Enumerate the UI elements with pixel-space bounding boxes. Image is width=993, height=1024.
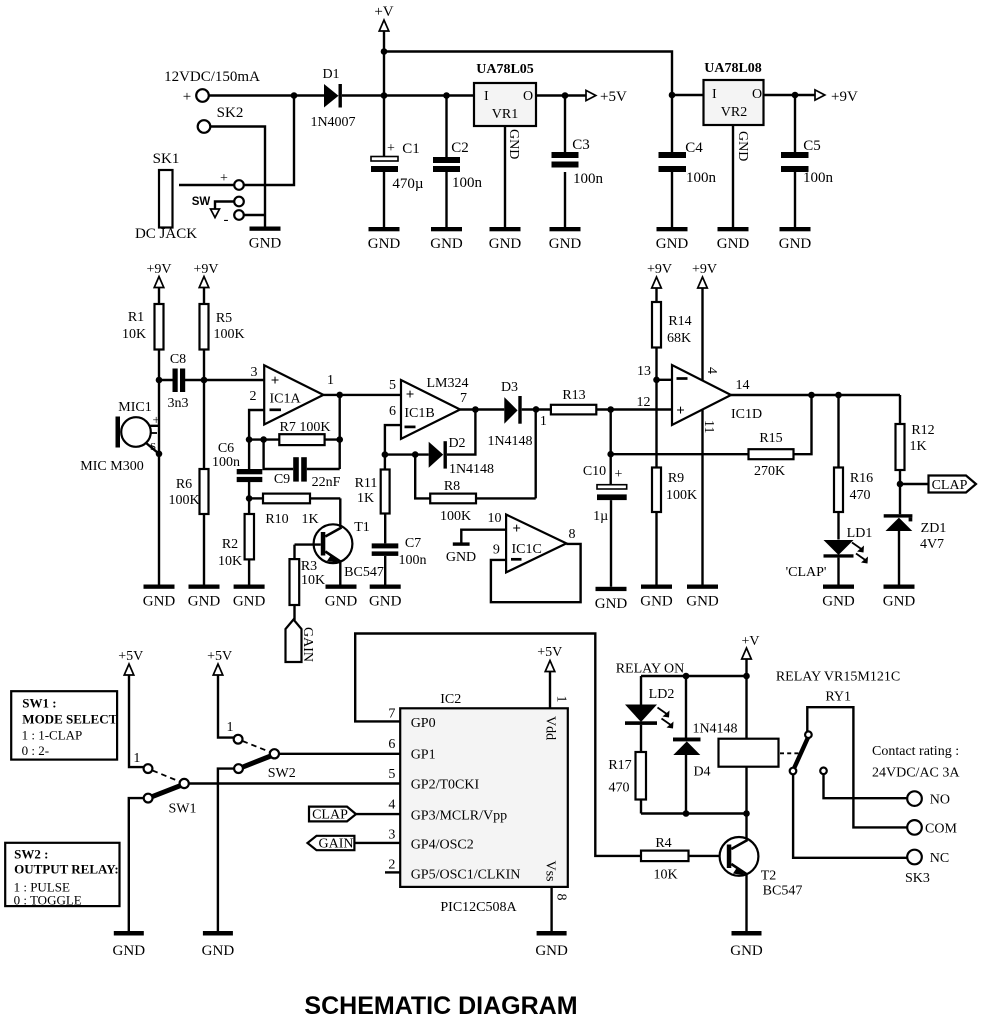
svg-text:GP5/OSC1/CLKIN: GP5/OSC1/CLKIN [411, 868, 521, 883]
svg-text:470µ: 470µ [392, 176, 424, 192]
resistor R1 10K [122, 288, 164, 381]
wire IC1A pin2 loop [249, 410, 264, 440]
terminal NC [907, 850, 949, 866]
wire pin4 supply [701, 288, 703, 380]
relay switch contacts [790, 707, 908, 858]
svg-text:LD1: LD1 [847, 526, 873, 541]
node +9V rail R14 [647, 262, 672, 288]
ground ZD1 [883, 585, 916, 610]
svg-text:C8: C8 [170, 352, 186, 367]
svg-text:GP3/MCLR/Vpp: GP3/MCLR/Vpp [411, 809, 507, 824]
tag CLAP input GP3 [309, 807, 400, 823]
svg-text:R9: R9 [668, 471, 684, 486]
svg-text:1K: 1K [909, 439, 926, 454]
wire SK2 to ground rail [211, 127, 266, 227]
switch SW2 [227, 720, 296, 781]
svg-text:SW1 :: SW1 : [22, 696, 56, 711]
svg-text:SW: SW [192, 196, 211, 208]
svg-text:T2: T2 [761, 869, 777, 884]
svg-text:+: + [271, 373, 280, 389]
svg-text:1K: 1K [357, 491, 374, 506]
svg-text:T1: T1 [354, 520, 370, 535]
svg-text:4: 4 [704, 367, 719, 374]
ground SW2 [202, 931, 235, 959]
svg-text:470: 470 [609, 781, 630, 796]
svg-text:SW2 :: SW2 : [14, 847, 48, 862]
svg-text:Contact rating :: Contact rating : [872, 744, 959, 759]
ground pin11 [686, 585, 719, 610]
svg-text:R17: R17 [608, 758, 631, 773]
svg-text:GND: GND [446, 550, 476, 565]
svg-text:R4: R4 [655, 836, 671, 851]
svg-text:5: 5 [389, 378, 396, 393]
wire IC1C feedback loop [491, 544, 581, 602]
svg-text:GAIN: GAIN [319, 837, 354, 852]
resistor R17 470 [608, 752, 646, 814]
ground R9 [640, 585, 673, 610]
resistor R13 [551, 388, 672, 414]
resistor R3 10K [290, 545, 326, 620]
svg-text:ZD1: ZD1 [921, 521, 947, 536]
svg-text:3: 3 [251, 365, 258, 380]
svg-text:10K: 10K [653, 868, 677, 883]
svg-text:0 : 2-: 0 : 2- [22, 743, 49, 758]
svg-text:I: I [484, 89, 489, 104]
svg-text:SCHEMATIC DIAGRAM: SCHEMATIC DIAGRAM [304, 992, 577, 1020]
ground C7 [369, 585, 402, 610]
svg-text:C4: C4 [685, 140, 703, 156]
regulator VR1 UA78L05 [474, 62, 536, 126]
ground jack [249, 227, 282, 252]
terminal NO [907, 791, 950, 807]
svg-text:Vss: Vss [543, 861, 558, 882]
svg-text:100n: 100n [452, 175, 483, 191]
svg-text:2: 2 [250, 389, 257, 404]
node +V relay [741, 634, 759, 659]
svg-text:10K: 10K [122, 327, 146, 342]
svg-text:+9V: +9V [193, 262, 218, 277]
svg-text:MIC1: MIC1 [118, 400, 151, 415]
resistor R2 10K [218, 498, 254, 584]
wire RELAY ON rail [616, 662, 747, 677]
wire jack plus to D1 anode rail [244, 96, 294, 186]
svg-text:SK3: SK3 [905, 871, 930, 886]
svg-text:22nF: 22nF [312, 475, 341, 490]
resistor R6 100K [168, 380, 208, 585]
info box SW2 OUTPUT RELAY [5, 843, 119, 908]
svg-text:24VDC/AC 3A: 24VDC/AC 3A [872, 766, 960, 781]
capacitor C10 1u electrolytic [583, 410, 627, 587]
svg-text:1: 1 [327, 373, 334, 388]
svg-text:SW1: SW1 [169, 802, 197, 817]
svg-text:OUTPUT RELAY:: OUTPUT RELAY: [14, 862, 119, 877]
svg-text:10K: 10K [301, 573, 325, 588]
svg-text:SW2: SW2 [268, 766, 296, 781]
svg-text:R5: R5 [216, 311, 232, 326]
svg-text:GP2/T0CKI: GP2/T0CKI [411, 778, 480, 793]
resistor R7 100K feedback [249, 420, 340, 445]
svg-text:GND: GND [735, 131, 750, 161]
svg-text:+: + [220, 171, 228, 186]
ground LD1 [822, 585, 855, 610]
ground R6 [188, 585, 221, 610]
svg-text:12VDC/150mA: 12VDC/150mA [164, 69, 260, 85]
svg-text:+V: +V [741, 634, 759, 649]
svg-text:IC1D: IC1D [731, 407, 762, 422]
svg-text:'CLAP': 'CLAP' [786, 565, 827, 580]
switch SW1 [133, 751, 196, 817]
svg-text:100n: 100n [686, 170, 717, 186]
dashed actuator link [780, 752, 799, 754]
wire mic bias column [158, 380, 160, 585]
svg-text:1N4007: 1N4007 [310, 115, 355, 130]
svg-text:6: 6 [389, 404, 396, 419]
op-amp IC1C [488, 511, 576, 572]
svg-text:1N4148: 1N4148 [449, 462, 494, 477]
tag CLAP output [900, 476, 976, 494]
svg-text:GAIN: GAIN [300, 627, 315, 662]
svg-text:+9V: +9V [647, 262, 672, 277]
svg-text:+: + [512, 521, 521, 537]
svg-text:R12: R12 [911, 423, 934, 438]
ground C3 [549, 227, 582, 252]
svg-text:IC1C: IC1C [512, 542, 542, 557]
svg-text:RELAY ON: RELAY ON [616, 662, 685, 677]
svg-text:+5V: +5V [600, 89, 627, 105]
resistor R15 270K [611, 395, 812, 479]
microphone MIC1 [80, 400, 160, 474]
svg-text:5: 5 [388, 767, 395, 782]
svg-text:14: 14 [736, 378, 750, 393]
svg-text:COM: COM [925, 822, 957, 837]
wire SW1 bottom to ground [129, 798, 144, 931]
label contact rating [872, 744, 960, 781]
svg-text:C3: C3 [572, 137, 590, 153]
capacitor C3 100n [552, 96, 604, 228]
svg-text:7: 7 [460, 391, 467, 406]
node +5V SW1 [118, 649, 143, 675]
svg-text:Vdd: Vdd [543, 716, 558, 740]
svg-text:0 : TOGGLE: 0 : TOGGLE [14, 893, 82, 908]
wire VR2 output [764, 94, 816, 96]
svg-text:GP4/OSC2: GP4/OSC2 [411, 838, 474, 853]
svg-text:I: I [712, 87, 717, 102]
wire pin13 [637, 364, 672, 380]
jack minus pin [224, 210, 244, 228]
tag GAIN input GP4 [308, 836, 401, 852]
diode D1 1N4007 [310, 67, 355, 130]
svg-text:D3: D3 [501, 380, 518, 395]
resistor R12 1K [896, 395, 935, 514]
capacitor C4 100n [659, 95, 717, 227]
svg-text:8: 8 [554, 894, 569, 901]
ground C5 [779, 227, 812, 252]
svg-text:O: O [523, 89, 533, 104]
svg-text:+: + [615, 467, 623, 482]
svg-text:R15: R15 [759, 431, 782, 446]
op-amp IC1A [250, 365, 335, 425]
resistor R10 1K [249, 494, 340, 527]
svg-text:+: + [676, 403, 685, 419]
svg-text:R11: R11 [355, 476, 378, 491]
svg-text:CLAP: CLAP [932, 478, 968, 493]
svg-text:7: 7 [388, 707, 395, 722]
wire VR2 gnd pin [732, 125, 734, 227]
ground C2 [430, 227, 463, 252]
junction dots amp left [156, 377, 540, 502]
LED LD1 [786, 526, 873, 585]
resistor R16 470 [834, 395, 873, 540]
wire IC1B pin6 loop [385, 425, 401, 455]
wire plus terminal to D1 [209, 94, 324, 96]
op-amp IC1D [637, 365, 763, 433]
junction dots bottom section [683, 673, 750, 817]
svg-text:R6: R6 [176, 477, 192, 492]
ground VR2 [717, 227, 750, 252]
transistor T2 BC547 [720, 814, 803, 932]
resistor R5 100K [200, 288, 245, 381]
wire IC1A output feedback drop [339, 395, 341, 469]
svg-text:GP0: GP0 [411, 716, 436, 731]
svg-text:68K: 68K [667, 331, 691, 346]
svg-text:O: O [752, 87, 762, 102]
svg-text:R3: R3 [301, 559, 317, 574]
diode D2 1N4148 [385, 436, 494, 477]
resistor R4 10K [641, 836, 726, 883]
transistor T1 BC547 [295, 498, 384, 584]
wire SW2 pole to GP1 [279, 753, 400, 755]
ground Vss [535, 931, 568, 959]
jack plus pin [220, 171, 244, 190]
junction dots power section [291, 48, 799, 99]
wire +V vertical to D1 rail [383, 31, 385, 96]
regulator VR2 UA78L08 [704, 61, 764, 125]
svg-text:1: 1 [133, 751, 140, 766]
ground MIC1 [143, 585, 176, 610]
svg-text:R13: R13 [562, 388, 585, 403]
ground IC1C pin10 [446, 530, 506, 565]
wire IC1A output to IC1B pin5 [323, 394, 401, 396]
zener ZD1 4V7 [884, 514, 947, 584]
svg-text:C2: C2 [451, 140, 469, 156]
svg-text:R10: R10 [265, 512, 288, 527]
IC2 PIC12C508A box [400, 692, 568, 915]
svg-text:R16: R16 [850, 471, 873, 486]
capacitor C2 100n [433, 96, 483, 228]
svg-text:R14: R14 [668, 314, 691, 329]
node +V (top rail) [374, 4, 393, 31]
svg-text:+5V: +5V [207, 649, 232, 664]
svg-text:GP1: GP1 [411, 748, 436, 763]
LED LD2 [625, 676, 674, 752]
svg-text:10: 10 [488, 511, 502, 526]
svg-text:C10: C10 [583, 464, 606, 479]
ground R2 [233, 585, 266, 610]
ground SW1 [113, 931, 146, 959]
diode D4 1N4148 [673, 676, 738, 814]
svg-text:100n: 100n [399, 553, 427, 568]
svg-text:1 : 1-CLAP: 1 : 1-CLAP [22, 728, 83, 743]
svg-text:SK2: SK2 [217, 105, 244, 121]
svg-text:PIC12C508A: PIC12C508A [440, 900, 517, 915]
svg-text:1: 1 [227, 720, 234, 735]
wire D1 cathode to VR1 input [342, 94, 474, 96]
svg-text:+9V: +9V [831, 89, 858, 105]
svg-text:10K: 10K [218, 554, 242, 569]
wire +5V to SW1 terminal 1 [129, 675, 144, 767]
svg-text:+: + [387, 141, 395, 156]
ground T1 [325, 585, 358, 610]
svg-text:R7 100K: R7 100K [280, 420, 331, 435]
tag GAIN vertical [286, 620, 316, 663]
svg-text:LM324: LM324 [427, 376, 469, 391]
svg-text:1K: 1K [301, 512, 318, 527]
op-amp IC1B [389, 376, 469, 439]
connector SK2 [198, 105, 244, 133]
wire jack plus to SK1 [179, 184, 234, 186]
relay coil RY1 [719, 739, 779, 767]
svg-text:IC1B: IC1B [404, 406, 434, 421]
wire IC1D output [731, 394, 900, 396]
wire VR1 output [536, 94, 586, 96]
resistor R14 68K [652, 288, 692, 380]
svg-text:BC547: BC547 [344, 565, 384, 580]
wire Vss pin 8 to ground [552, 887, 569, 931]
svg-text:+V: +V [374, 4, 393, 20]
capacitor C6 100n [212, 440, 262, 499]
svg-text:8: 8 [569, 527, 576, 542]
wire +5V to SW2 terminal 1 [218, 675, 234, 738]
svg-text:UA78L08: UA78L08 [704, 61, 762, 76]
node +5V Vdd [537, 645, 562, 672]
svg-text:2: 2 [388, 858, 395, 873]
svg-text:1N4148: 1N4148 [487, 434, 532, 449]
svg-text:LD2: LD2 [649, 687, 675, 702]
terminal SK2 plus [183, 89, 209, 105]
svg-text:BC547: BC547 [763, 884, 803, 899]
ground C10 [595, 587, 628, 612]
connector SK1 body [153, 151, 180, 228]
svg-text:CLAP: CLAP [312, 808, 348, 823]
svg-text:RY1: RY1 [825, 690, 851, 705]
svg-text:DC JACK: DC JACK [135, 226, 197, 242]
ground C1 [368, 227, 401, 252]
svg-text:C1: C1 [402, 141, 420, 157]
node +9V rail R5 [193, 262, 218, 288]
svg-text:100K: 100K [666, 488, 697, 503]
svg-text:MIC M300: MIC M300 [80, 459, 143, 474]
wire output to D2 cathode [447, 410, 476, 455]
svg-text:MODE SELECT: MODE SELECT [22, 712, 117, 727]
resistor R11 1K [355, 455, 390, 544]
svg-text:4V7: 4V7 [920, 537, 944, 552]
ground VR1 [489, 227, 522, 252]
info box SW1 MODE SELECT [11, 691, 117, 759]
svg-text:R8: R8 [444, 479, 460, 494]
wire Vdd pin 1 [550, 672, 569, 709]
svg-text:C6: C6 [218, 441, 234, 456]
capacitor C5 100n [781, 95, 834, 227]
svg-text:R1: R1 [128, 310, 144, 325]
node +5V SW2 [207, 649, 232, 675]
wire jack minus to ground [244, 214, 265, 216]
svg-text:NO: NO [930, 793, 950, 808]
capacitor C1 470u electrolytic [371, 96, 424, 228]
svg-text:IC1A: IC1A [269, 392, 301, 407]
svg-text:C7: C7 [405, 536, 421, 551]
svg-text:D2: D2 [448, 436, 465, 451]
terminal COM [907, 820, 957, 836]
svg-text:1N4148: 1N4148 [692, 722, 737, 737]
capacitor C7 100n [372, 536, 427, 585]
svg-text:270K: 270K [754, 464, 785, 479]
svg-text:3: 3 [388, 828, 395, 843]
junction dots amp right [607, 377, 903, 488]
wire collector rail [641, 812, 747, 814]
svg-text:VR2: VR2 [721, 105, 747, 120]
diode D3 1N4148 [487, 380, 550, 449]
svg-text:IC2: IC2 [440, 692, 461, 707]
svg-text:+5V: +5V [537, 645, 562, 660]
svg-text:D1: D1 [322, 67, 339, 82]
svg-text:4: 4 [388, 798, 395, 813]
svg-text:1: 1 [554, 696, 569, 703]
svg-text:R2: R2 [222, 537, 238, 552]
svg-text:GND: GND [506, 129, 521, 159]
svg-text:13: 13 [637, 364, 651, 379]
svg-text:-: - [224, 212, 229, 228]
svg-text:+: + [183, 89, 191, 105]
capacitor C8 3n3 [159, 352, 264, 411]
wire SW1 pole to GP2 [189, 782, 401, 784]
svg-text:100n: 100n [212, 455, 240, 470]
svg-text:SK1: SK1 [153, 151, 180, 167]
wire IC1B output to D3 [460, 408, 504, 410]
svg-text:100n: 100n [573, 171, 604, 187]
svg-text:+: + [406, 387, 415, 403]
svg-text:VR1: VR1 [492, 107, 518, 122]
svg-text:100K: 100K [440, 509, 471, 524]
svg-text:9: 9 [493, 543, 500, 558]
svg-text:+5V: +5V [118, 649, 143, 664]
svg-text:470: 470 [850, 488, 871, 503]
svg-text:UA78L05: UA78L05 [476, 62, 534, 77]
wire pin11 to ground [701, 410, 703, 585]
svg-text:C9: C9 [274, 472, 290, 487]
svg-text:100n: 100n [803, 170, 834, 186]
svg-text:3n3: 3n3 [168, 396, 189, 411]
svg-text:100K: 100K [213, 327, 244, 342]
ground T2 [730, 931, 763, 959]
wire VR1 gnd pin [504, 126, 506, 227]
ground C4 [656, 227, 689, 252]
svg-text:6: 6 [388, 737, 395, 752]
wire +V down to coil [745, 659, 747, 814]
wire pin 2 stub [385, 871, 400, 873]
svg-text:1µ: 1µ [593, 509, 608, 524]
svg-text:12: 12 [637, 395, 651, 410]
wire SW2 bottom to ground [218, 769, 234, 931]
capacitor C9 22nF [264, 440, 341, 490]
svg-text:C5: C5 [803, 138, 821, 154]
node +9V output arrow [815, 89, 858, 105]
node +5V output arrow [586, 89, 627, 105]
resistor R8 100K [415, 409, 536, 524]
node +9V rail R1 [146, 262, 171, 288]
svg-text:NC: NC [930, 851, 949, 866]
svg-text:1: 1 [540, 414, 547, 429]
svg-text:D4: D4 [693, 765, 710, 780]
